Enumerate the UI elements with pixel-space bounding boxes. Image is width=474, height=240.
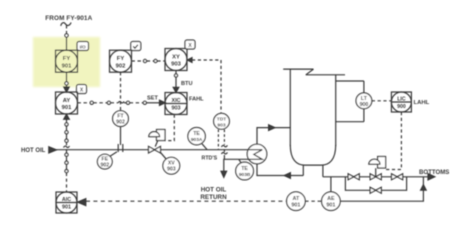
svg-text:902: 902 [116, 63, 126, 69]
svg-text:903: 903 [172, 106, 181, 112]
wire: FY-901 to AY-901 [64, 72, 70, 92]
instrument FY-901 [56, 50, 78, 72]
svg-text:BOTTOMS: BOTTOMS [419, 169, 449, 176]
pipe: vessel bottoms to reboiler [257, 164, 303, 179]
wire: TDT-903 to XY-903 (dashed) [187, 58, 221, 114]
wire: FT-902 to orifice [120, 127, 122, 146]
svg-text:HOT OIL: HOT OIL [21, 148, 46, 154]
actuator of control valve [369, 157, 386, 169]
small box X at AY-901 [77, 85, 87, 94]
crossing hop tilde [221, 152, 227, 154]
svg-text:XIC: XIC [172, 98, 181, 104]
wire: AE-901 tap to bottoms line [330, 177, 332, 192]
wire: FY-902 to XY-903 (data link) [132, 59, 166, 62]
svg-text:XY: XY [172, 55, 180, 61]
wire: AT-901 to AE-901 (dashed) [305, 200, 321, 202]
highlight box (yellow) [33, 37, 100, 87]
gate valve 2 [392, 174, 403, 180]
arrow into AIC-901 [78, 199, 86, 206]
svg-text:903: 903 [217, 122, 225, 128]
svg-text:SET: SET [147, 95, 158, 101]
wire: link from FY-901A to FY-901 [66, 26, 68, 34]
instrument AE-901 [322, 192, 341, 211]
vessel nozzle right [322, 165, 324, 177]
svg-text:RTD'S: RTD'S [202, 155, 218, 161]
crossing hop tilde [118, 101, 124, 103]
svg-text:901: 901 [62, 105, 72, 111]
orifice plate FE-902 [118, 144, 123, 152]
instrument TE-903A [188, 128, 207, 150]
svg-text:900: 900 [397, 104, 406, 110]
instrument LIC-900 [391, 92, 411, 112]
svg-text:902: 902 [100, 163, 109, 169]
instrument FE-902 [97, 152, 117, 169]
crossing hop tilde [221, 145, 227, 147]
instrument XIC-903 [165, 93, 187, 115]
crossing hop tilde [64, 146, 70, 148]
svg-text:FY: FY [63, 56, 71, 62]
instrument FY-902 [110, 50, 132, 72]
instrument XV-903 [161, 153, 180, 174]
pipe: bypass line [345, 177, 406, 191]
wire: FY-902 to FT-902 (dashed) [120, 72, 122, 110]
instrument TE-903B [236, 159, 254, 180]
wire: TDT-903 to TE-903A tap (dashed) [217, 130, 219, 150]
instrument AT-901 [287, 192, 306, 211]
svg-text:RETURN: RETURN [200, 194, 227, 201]
small box X at XY-903 [185, 40, 195, 49]
valve XV-903 body [149, 146, 161, 153]
svg-text:901: 901 [291, 203, 300, 209]
small box I/O at FY-901 [77, 42, 89, 51]
svg-text:TE: TE [241, 166, 248, 172]
wire: LIC-900 to control valve (dashed) [386, 112, 402, 170]
control valve LV body [370, 168, 381, 180]
svg-text:FROM FY-901A: FROM FY-901A [45, 15, 92, 22]
standpipe taps for LT-900 [336, 81, 364, 122]
pipe: sample return to bottoms line [340, 177, 426, 201]
svg-text:903: 903 [167, 167, 176, 173]
line break squiggle [61, 23, 71, 26]
pipe: reboiler outlet up to vessel [257, 125, 290, 144]
svg-text:TDT: TDT [217, 116, 227, 122]
svg-text:901: 901 [62, 205, 71, 211]
instrument XY-903 [165, 49, 187, 71]
svg-text:AT: AT [293, 196, 300, 202]
wire: AIC-901 to AT-901 (dashed) [86, 200, 287, 202]
pipe: bottoms line [323, 176, 429, 178]
svg-text:900: 900 [360, 102, 369, 108]
svg-text:901: 901 [326, 203, 335, 209]
instrument LT-900 [356, 93, 372, 109]
svg-text:LAHL: LAHL [414, 100, 430, 106]
svg-text:FAHL: FAHL [189, 97, 204, 103]
vessel nozzle left [302, 165, 304, 175]
svg-text:FY: FY [117, 56, 125, 62]
instrument AY-901 [56, 92, 78, 114]
svg-text:AIC: AIC [62, 197, 71, 203]
wire: LT-900 to LIC-900 (dashed) [372, 100, 392, 102]
wire: AIC-901 up to AY-901 (data link) [64, 114, 70, 192]
instrument AIC-901 [56, 192, 77, 213]
svg-text:901: 901 [62, 63, 72, 69]
svg-text:AY: AY [63, 98, 71, 104]
actuator of XV-903 [149, 130, 165, 147]
wire: TDT-903 to TE-903B tap (dashed) [223, 130, 225, 160]
wire: AY-901 to XIC-903 (data link) [78, 100, 166, 105]
heat exchanger E (reboiler) [247, 144, 267, 164]
svg-text:I/O: I/O [80, 44, 87, 49]
svg-text:903A: 903A [191, 137, 203, 143]
svg-text:HOT OIL: HOT OIL [201, 186, 227, 193]
wire: XY-903 to XIC-903 [173, 71, 179, 93]
label BOTTOMS + arrow [428, 174, 435, 180]
gate valve 1 [348, 174, 359, 180]
pipe: hot oil return [221, 159, 249, 177]
svg-text:903: 903 [171, 62, 181, 68]
instrument FT-902 [113, 111, 129, 127]
svg-text:TE: TE [193, 131, 200, 137]
wire: XIC-903 to XV actuator (dashed) [165, 115, 174, 141]
vessel V (column) [283, 69, 345, 165]
bypass gate valve [370, 187, 381, 193]
svg-text:BTU: BTU [181, 81, 193, 87]
svg-text:LIC: LIC [397, 96, 406, 102]
small box check at FY-902 [131, 42, 141, 51]
svg-text:902: 902 [116, 120, 125, 126]
svg-text:903B: 903B [239, 172, 251, 178]
svg-text:AE: AE [327, 196, 335, 202]
instrument TDT-903 [214, 113, 230, 129]
pipe: hot oil main line [57, 149, 249, 151]
